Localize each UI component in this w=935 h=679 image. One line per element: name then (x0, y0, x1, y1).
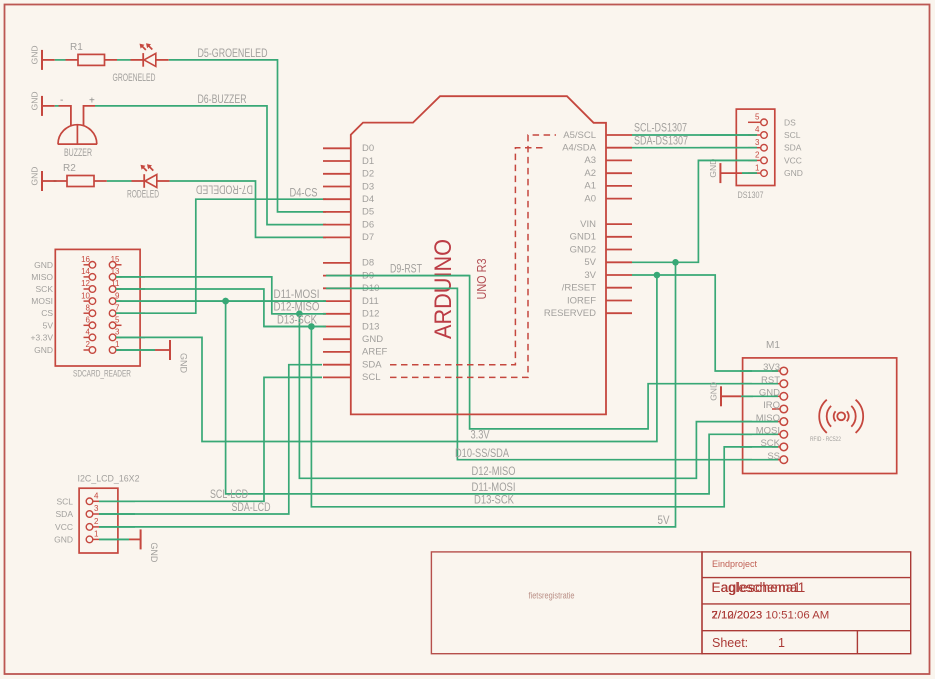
wire net D13-SCK: SDCARD pin11 to Arduino D13 (116, 289, 326, 327)
pin IOREF Arduino (567, 295, 632, 306)
wire overlay D13-SCK row (264, 326, 326, 328)
pin D3 Arduino (323, 181, 374, 192)
svg-text:GND: GND (54, 534, 73, 544)
pin D2 Arduino (323, 169, 374, 180)
wire net D11-MOSI: SDCARD pin9 to Arduino D11 (116, 300, 326, 302)
svg-text:D11-MOSI: D11-MOSI (472, 480, 516, 494)
svg-text:D13-SCK: D13-SCK (474, 493, 514, 507)
svg-text:4: 4 (755, 125, 760, 134)
svg-text:GND: GND (34, 345, 53, 355)
antenna icon RFID (819, 400, 863, 433)
title block text date (double printed) (712, 609, 830, 621)
svg-text:DS1307: DS1307 (738, 190, 764, 200)
wire overlay SD GND row (116, 349, 155, 351)
pin GND2 Arduino (570, 244, 632, 255)
ground at ds1307 (708, 159, 721, 183)
wire overlay SD 3.3V row (116, 336, 145, 338)
pin 12 SDCARD_READER (81, 279, 96, 292)
svg-text:7/10/2023: 7/10/2023 (712, 609, 763, 621)
svg-text:R2: R2 (63, 163, 76, 174)
wire net D7-RODELED: LED2 to Arduino D7 (170, 181, 326, 237)
svg-text:3: 3 (94, 504, 99, 513)
svg-text:3V: 3V (584, 270, 596, 281)
pin 4 SDCARD_READER (84, 328, 96, 341)
frame documentation box fietsregistratie (431, 552, 702, 654)
wire overlay LCD SDA row (99, 513, 135, 515)
wire net D4-CS: Arduino D4 to SDCARD CS pin7 (116, 199, 326, 313)
resistor R1 (66, 42, 118, 65)
wire pin GND symbol buzzer row (42, 105, 55, 107)
svg-text:SCK: SCK (36, 284, 54, 294)
pin D5 Arduino (323, 207, 374, 218)
wire net D9-RST: Arduino D9 to RFID RST (326, 276, 752, 429)
ground at rfid (709, 382, 722, 406)
wire overlay RFID MISO (740, 421, 778, 423)
svg-text:+3.3V: +3.3V (31, 332, 54, 342)
svg-text:IRQ: IRQ (763, 400, 780, 411)
pin MISO M1 (756, 413, 788, 426)
svg-text:SCL: SCL (56, 496, 73, 506)
pin D1 Arduino (323, 156, 374, 167)
svg-text:GND: GND (34, 260, 53, 270)
pin 11 SDCARD_READER (109, 279, 121, 292)
junction 3V3 branch (654, 272, 661, 279)
svg-text:D5: D5 (362, 207, 374, 218)
svg-text:MOSI: MOSI (31, 296, 53, 306)
wire pin GND symbol R1 row (42, 59, 55, 61)
connector I2C_LCD_16X2 (79, 488, 118, 553)
svg-text:D9-RST: D9-RST (390, 262, 422, 276)
wire pin GND symbol sdcard (155, 349, 170, 351)
pin 3V3 M1 (763, 362, 788, 375)
wire pin GND symbol ds1307 (720, 172, 742, 174)
wire net GND at RFID (741, 395, 753, 397)
svg-text:RODELED: RODELED (127, 189, 159, 201)
pin VIN Arduino (580, 219, 632, 230)
pin 13 SDCARD_READER (109, 267, 121, 280)
pin IRQ M1 (763, 400, 787, 413)
wire overlay RFID SCK (740, 446, 778, 448)
svg-text:D12: D12 (362, 309, 379, 320)
svg-text:1: 1 (778, 636, 785, 650)
wire pin GND symbol rfid (721, 395, 741, 397)
pin SDA Arduino (323, 360, 382, 371)
svg-text:GND: GND (708, 159, 718, 178)
wire net D11-MOSI: branch to RFID MOSI (226, 301, 752, 494)
pin 6 SDCARD_READER (84, 316, 96, 329)
connector DS1307 (736, 109, 775, 185)
pin A3 Arduino (584, 155, 632, 166)
wire net GND at LCD (99, 538, 129, 540)
svg-text:+: + (89, 96, 95, 107)
wire net D6-BUZZER: GND to buzzer minus (55, 105, 59, 107)
wire overlay D11-MOSI row (116, 300, 326, 302)
svg-text:Eindproject: Eindproject (712, 559, 758, 569)
svg-text:AREF: AREF (362, 347, 388, 358)
wire net GND at SDCARD (116, 349, 155, 351)
svg-text:5: 5 (115, 316, 120, 325)
wire pin GND symbol R2 row (42, 180, 55, 182)
svg-text:6: 6 (86, 316, 91, 325)
svg-text:M1: M1 (766, 340, 780, 351)
pin 5V Arduino (584, 257, 632, 268)
LED RODELED (127, 164, 170, 200)
wire overlay RFID GND (742, 395, 779, 397)
pin 1 SDCARD_READER (109, 340, 121, 353)
svg-text:SDCARD_READER: SDCARD_READER (73, 369, 131, 380)
svg-text:1: 1 (115, 340, 120, 349)
svg-text:RFID - RC522: RFID - RC522 (810, 436, 841, 443)
wire dashed SCL bus: Arduino SCL pin to A5/SCL (390, 135, 556, 377)
svg-text:A3: A3 (584, 155, 596, 166)
IC U1 Arduino UNO R3 body (351, 96, 606, 414)
svg-text:9: 9 (115, 291, 120, 300)
pin 7 SDCARD_READER (109, 303, 121, 316)
svg-text:D7-RODELED: D7-RODELED (196, 182, 253, 196)
svg-text:MISO: MISO (31, 272, 53, 282)
svg-text:SCL: SCL (362, 372, 380, 383)
svg-text:5V: 5V (658, 513, 670, 527)
wire net D5-GROENELED: GND to R1 (55, 59, 66, 61)
pin D0 Arduino (323, 143, 374, 154)
svg-text:A5/SCL: A5/SCL (563, 130, 596, 141)
svg-text:D4-CS: D4-CS (290, 186, 318, 200)
svg-text:3: 3 (115, 328, 120, 337)
connector SDCARD_READER (55, 249, 140, 366)
pin D4 Arduino (323, 194, 374, 205)
wire net D7-RODELED: GND to R2 (54, 180, 57, 182)
pin RST M1 (761, 375, 788, 388)
svg-text:15: 15 (111, 255, 120, 264)
pin 2 I2C_LCD_16X2 VCC (55, 517, 99, 532)
svg-text:GND: GND (362, 334, 383, 345)
pin SS M1 (767, 451, 787, 464)
pin D9 Arduino (323, 270, 374, 281)
svg-text:2: 2 (94, 517, 99, 526)
wire overlay DS1307 GND row (742, 172, 757, 174)
title block text Eagleschema1 (double printed) (712, 580, 806, 595)
ground at lcd (141, 529, 160, 563)
svg-text:D5-GROENELED: D5-GROENELED (198, 46, 268, 60)
pin A2 Arduino (584, 168, 632, 179)
pin 16 SDCARD_READER (81, 255, 96, 268)
pin 8 SDCARD_READER (84, 303, 96, 316)
wire net GND at DS1307 (742, 172, 757, 174)
pin D12 Arduino (323, 309, 379, 320)
pin SCL Arduino (323, 372, 380, 383)
LED GROENELED (113, 43, 169, 84)
wire overlay D10 over body (326, 287, 457, 289)
svg-text:D7: D7 (362, 232, 374, 243)
svg-text:D4: D4 (362, 194, 374, 205)
wire net D10-SS/SDA: Arduino D10 to RFID SS (326, 288, 752, 459)
svg-text:D13: D13 (362, 321, 379, 332)
junction D11-MOSI branch (222, 298, 229, 305)
pin 3 I2C_LCD_16X2 SDA (56, 504, 99, 519)
wire overlay SD pin11 row (116, 288, 145, 290)
svg-text:A0: A0 (584, 193, 596, 204)
junction overlay D12 (296, 311, 303, 318)
svg-text:GND1: GND1 (570, 232, 596, 243)
wire net 3.3V: SDCARD +3.3V to 3V rail (116, 275, 657, 442)
svg-text:Sheet:: Sheet: (712, 636, 748, 650)
pin A5/SCL Arduino (563, 130, 632, 141)
pin D8 Arduino (323, 258, 374, 269)
svg-text:3: 3 (755, 138, 760, 147)
svg-text:4: 4 (86, 328, 91, 337)
svg-text:VIN: VIN (580, 219, 596, 230)
pin SCK M1 (760, 438, 787, 451)
wire overlay DS1307 VCC row (698, 159, 757, 161)
pin 14 SDCARD_READER (81, 267, 96, 280)
svg-text:A2: A2 (584, 168, 596, 179)
svg-text:SDA-DS1307: SDA-DS1307 (634, 133, 688, 147)
ground at sdcard (170, 340, 189, 374)
svg-text:SCL: SCL (784, 130, 801, 140)
svg-text:2: 2 (755, 151, 760, 160)
svg-text:fietsregistratie: fietsregistratie (529, 591, 575, 601)
wire net D5-GROENELED: R1 to LED1 (117, 59, 131, 61)
svg-text:CS: CS (41, 308, 53, 318)
svg-text:BUZZER: BUZZER (64, 147, 92, 159)
pin 4 DS1307 SCL (748, 125, 801, 140)
svg-text:GND: GND (30, 92, 40, 111)
svg-text:10: 10 (81, 291, 90, 300)
svg-text:7: 7 (115, 303, 120, 312)
svg-text:1: 1 (755, 163, 760, 172)
pin D7 Arduino (323, 232, 374, 243)
svg-text:VCC: VCC (55, 522, 73, 532)
pin D13 Arduino (323, 321, 379, 332)
wire overlay RFID 3V3 (740, 370, 778, 372)
svg-text:16: 16 (81, 255, 90, 264)
pin 15 SDCARD_READER (109, 255, 121, 268)
svg-text:D12-MISO: D12-MISO (472, 464, 516, 478)
wire overlay LCD SCL row (99, 500, 135, 502)
svg-text:GND2: GND2 (570, 244, 596, 255)
wire net SDA-DS1307 (632, 147, 757, 149)
pin 4 I2C_LCD_16X2 SCL (56, 492, 99, 507)
svg-text:D3: D3 (362, 181, 374, 192)
ground at R1 (30, 46, 43, 70)
pin A1 Arduino (584, 181, 632, 192)
svg-text:GND: GND (179, 353, 189, 374)
svg-text:5V: 5V (584, 257, 596, 268)
wire net SCL-DS1307 (632, 134, 757, 136)
wire net D13-SCK: branch to RFID SCK (311, 327, 752, 507)
svg-text:I2C_LCD_16X2: I2C_LCD_16X2 (78, 474, 140, 485)
svg-text:2: 2 (86, 340, 91, 349)
svg-text:D6: D6 (362, 219, 374, 230)
wire overlay LCD VCC row (99, 526, 135, 528)
svg-text:-: - (60, 95, 63, 106)
pin 5 SDCARD_READER (109, 316, 121, 329)
wire pin GND symbol lcd (129, 538, 141, 540)
svg-text:RESERVED: RESERVED (544, 308, 596, 319)
svg-text:4: 4 (94, 492, 99, 501)
svg-text:DS: DS (784, 117, 796, 127)
wire net D6-BUZZER: buzzer plus to Arduino D6 (95, 106, 326, 225)
pin A4/SDA Arduino (562, 143, 632, 154)
wire overlay LCD GND row (99, 538, 129, 540)
wire overlay DS1307 SDA row (700, 147, 757, 149)
svg-text:D11: D11 (362, 296, 379, 307)
svg-text:13: 13 (111, 267, 120, 276)
wire net SCL-LCD (99, 377, 322, 501)
wire net 5V: branch to LCD VCC (99, 262, 676, 527)
pin D11 Arduino (323, 296, 379, 307)
junction 5V branch (672, 259, 679, 266)
resistor R2 (54, 163, 106, 187)
svg-text:3.3V: 3.3V (471, 427, 490, 441)
pin 2 SDCARD_READER (84, 340, 96, 353)
pin 2 DS1307 VCC (748, 151, 802, 166)
pin 1 DS1307 GND (748, 163, 803, 178)
pin D10 Arduino (323, 283, 379, 294)
wire overlay D9-RST over body (326, 275, 470, 277)
svg-text:A4/SDA: A4/SDA (562, 143, 596, 154)
svg-text:D13-SCK: D13-SCK (277, 312, 317, 326)
wire overlay RFID SS (740, 459, 778, 461)
pin 3V Arduino (584, 270, 632, 281)
svg-text:A1: A1 (584, 181, 596, 192)
svg-text:SDA: SDA (56, 509, 74, 519)
svg-text:D10-SS/SDA: D10-SS/SDA (455, 446, 509, 460)
wire net D12-MISO: SDCARD pin13 to Arduino D12 (116, 277, 326, 314)
pin 3 DS1307 SDA (748, 138, 802, 153)
svg-text:D1: D1 (362, 156, 374, 167)
svg-text:SDA: SDA (784, 143, 802, 153)
wire net SDA-LCD (99, 365, 322, 514)
svg-text:14: 14 (81, 267, 90, 276)
svg-text:UNO R3: UNO R3 (474, 259, 489, 300)
buzzer BUZZER (58, 95, 97, 159)
svg-text:GND: GND (149, 542, 159, 563)
pin GND1 Arduino (570, 232, 632, 243)
wire overlay D12-MISO row (272, 313, 326, 315)
svg-text:8: 8 (86, 303, 91, 312)
pin RESERVED Arduino (544, 308, 632, 319)
pin GND M1 (759, 388, 788, 401)
pin GND Arduino (323, 334, 383, 345)
svg-text:GND: GND (30, 46, 40, 65)
svg-text:GROENELED: GROENELED (113, 72, 156, 84)
svg-text:5: 5 (755, 113, 760, 122)
svg-text:11: 11 (111, 279, 120, 288)
pin D6 Arduino (323, 219, 374, 230)
svg-text:D6-BUZZER: D6-BUZZER (198, 92, 247, 106)
svg-text:GND: GND (784, 168, 803, 178)
pin MOSI M1 (756, 426, 788, 439)
wire net D12-MISO: branch to RFID MISO (299, 314, 752, 479)
wire overlay SD CS row (116, 312, 145, 314)
wire dashed SDA bus: Arduino SDA pin to A4/SDA (390, 148, 544, 365)
svg-text:1: 1 (94, 530, 99, 539)
svg-text:GND: GND (709, 382, 719, 401)
junction overlay D13 (308, 323, 315, 330)
wire net 5V: Arduino 5V to DS1307 VCC (632, 160, 757, 262)
svg-text:D0: D0 (362, 143, 374, 154)
wire overlay RFID RST (740, 383, 778, 385)
pin 5 DS1307 DS (748, 113, 796, 128)
pin 10 SDCARD_READER (81, 291, 96, 304)
svg-text:R1: R1 (70, 42, 83, 53)
pin 3 SDCARD_READER (109, 328, 121, 341)
pin /RESET Arduino (562, 283, 632, 294)
svg-text:D8: D8 (362, 258, 374, 269)
junction D13-SCK branch (308, 323, 315, 330)
svg-text:12: 12 (81, 279, 90, 288)
svg-text:/RESET: /RESET (562, 283, 597, 294)
pin 1 I2C_LCD_16X2 GND (54, 530, 99, 545)
wire net D5-GROENELED: LED1 to Arduino D5 (169, 60, 326, 212)
wire net D7-RODELED: R2 to LED2 (107, 180, 132, 182)
svg-text:VCC: VCC (784, 155, 802, 165)
pin AREF Arduino (323, 347, 388, 358)
svg-text:GND: GND (30, 167, 40, 186)
pin A0 Arduino (584, 193, 632, 204)
ground at buzzer (30, 92, 43, 116)
svg-text:IOREF: IOREF (567, 295, 596, 306)
wire overlay RFID MOSI (740, 433, 778, 435)
svg-text:SDA: SDA (362, 360, 382, 371)
pin 9 SDCARD_READER (109, 291, 121, 304)
ground at R2 (30, 167, 43, 191)
wire overlay SD pin13 row (116, 276, 145, 278)
junction overlay D11 (222, 298, 229, 305)
svg-text:SDA-LCD: SDA-LCD (232, 500, 271, 514)
wire overlay DS1307 SCL row (700, 134, 757, 136)
wire net 3.3V: Arduino 3V to RFID 3V3 (632, 275, 752, 371)
svg-text:D2: D2 (362, 169, 374, 180)
junction D12-MISO branch (296, 311, 303, 318)
connector M1 RFID-RC522 (743, 358, 897, 474)
svg-text:5V: 5V (43, 320, 54, 330)
title block frame (702, 552, 911, 654)
svg-text:Eagleschema1: Eagleschema1 (712, 580, 806, 595)
